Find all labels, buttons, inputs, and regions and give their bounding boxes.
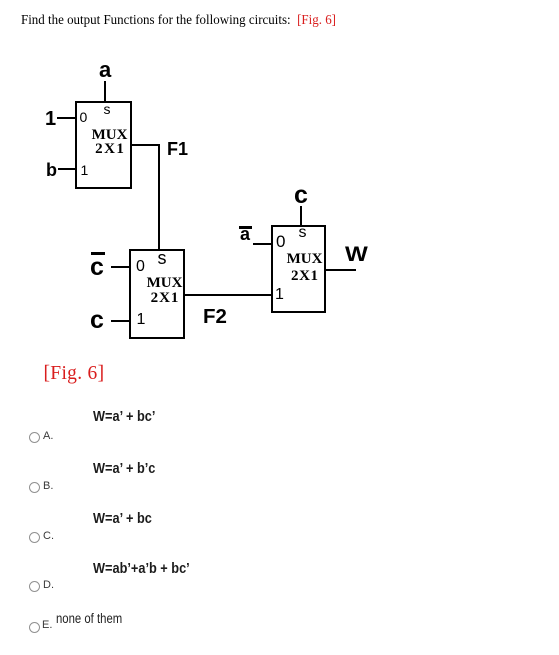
label a (select of U1) <box>99 59 111 81</box>
option B letter <box>43 481 53 492</box>
option E radio <box>29 622 40 633</box>
wire F1 vertical segment down to U2 select <box>158 144 160 251</box>
pin label 0 of U1 <box>80 110 88 124</box>
label F2 <box>203 307 227 328</box>
option C radio <box>29 532 40 543</box>
label constant 1 input <box>45 109 56 129</box>
value label MUX 2X1 of U2 <box>140 276 189 306</box>
option D formula <box>93 561 190 576</box>
option B formula <box>93 461 155 476</box>
value label MUX 2X1 of U3 <box>280 251 329 285</box>
option E text <box>56 612 122 626</box>
value label MUX 2X1 of U1 <box>85 128 134 157</box>
label c (select of U3) <box>294 183 308 208</box>
overbar of a-bar <box>239 226 252 229</box>
wire c-bar to U2 pin 0 <box>111 266 130 268</box>
mux U1 <box>75 101 132 189</box>
wire c to U3 select <box>300 206 302 226</box>
label b input <box>46 161 57 179</box>
label c input <box>90 308 104 333</box>
mux U3 <box>271 225 326 313</box>
option D radio <box>29 581 40 592</box>
pin label 1 of U1 <box>81 163 89 177</box>
option E letter <box>42 620 52 631</box>
wire a to U1 select <box>104 81 106 102</box>
wire constant 1 to U1 pin 0 <box>57 117 76 119</box>
wire c to U2 pin 1 <box>111 320 130 322</box>
option C letter <box>43 531 54 542</box>
option B radio <box>29 482 40 493</box>
wire U3 output W <box>326 269 356 271</box>
pin label 1 of U3 <box>275 287 284 303</box>
question text <box>21 13 336 27</box>
label F1 <box>167 140 188 158</box>
pin label 0 of U2 <box>136 259 145 275</box>
option C formula <box>93 511 152 526</box>
option A formula <box>93 409 155 424</box>
figure caption [Fig. 6] <box>44 364 105 384</box>
option D letter <box>43 580 54 591</box>
pin label S of U2 <box>155 249 169 267</box>
label a-bar input <box>240 225 250 243</box>
label W output <box>345 244 368 265</box>
label c-bar input <box>90 255 104 280</box>
wire b to U1 pin 1 <box>58 168 76 170</box>
option A radio <box>29 432 40 443</box>
wire U2 output F2 to U3 pin 1 <box>184 294 272 296</box>
option A letter <box>43 431 53 442</box>
pin label 0 of U3 <box>276 233 285 250</box>
pin label S of U3 <box>296 225 310 241</box>
wire a-bar to U3 pin 0 <box>253 243 272 245</box>
pin label S of U1 <box>100 102 114 116</box>
overbar of c-bar <box>91 252 105 255</box>
mux U2 <box>129 249 185 339</box>
wire U1 output F1 horizontal segment <box>131 144 160 146</box>
pin label 1 of U2 <box>137 312 146 328</box>
